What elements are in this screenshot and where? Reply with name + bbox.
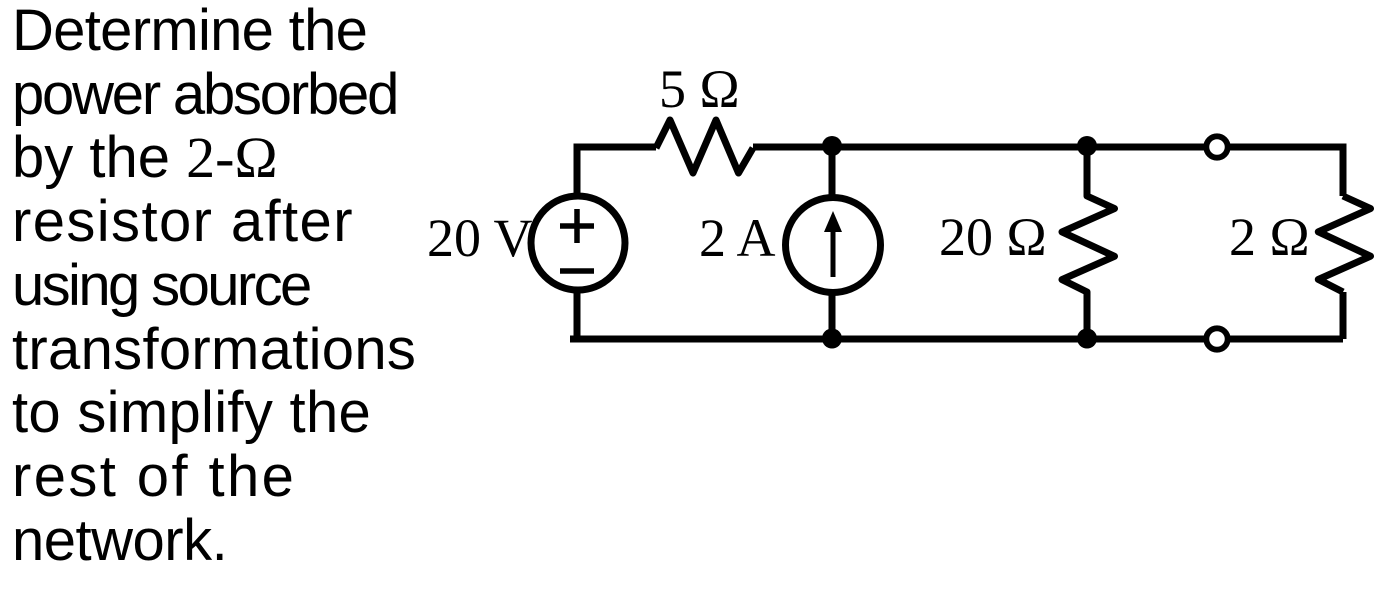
wire: right branch bottom from resistor to corner [1340, 292, 1347, 339]
current source I1 circle [786, 198, 881, 293]
wire: right branch top from open terminal to corner [1228, 147, 1343, 196]
open terminal (bottom) [1206, 328, 1227, 349]
resistor 20 ohm (vertical zigzag with leads) [1062, 147, 1115, 339]
junction node dot (top of 20-ohm resistor) [1077, 136, 1097, 156]
junction node dot (bottom of current source) [822, 329, 842, 349]
svg-text:5 Ω: 5 Ω [659, 59, 740, 119]
problem statement text [12, 0, 452, 572]
wire: voltage source bottom lead [574, 291, 581, 339]
open terminal (top) [1206, 136, 1227, 157]
svg-text:20 Ω: 20 Ω [939, 207, 1047, 267]
wire: top-left corner from voltage source to 5-ohm resistor [577, 147, 656, 196]
resistor 5 ohm (horizontal zigzag) [656, 120, 753, 173]
wire: top rail from resistor to top-right corner [753, 144, 1344, 151]
svg-text:2 Ω: 2 Ω [1229, 207, 1310, 267]
wire: current source top lead [829, 147, 836, 198]
current source arrow [824, 211, 842, 277]
svg-text:20 V: 20 V [427, 208, 533, 268]
minus symbol inside voltage source [560, 268, 594, 274]
plus symbol inside voltage source [560, 209, 594, 243]
wire: current source bottom lead [829, 293, 836, 339]
junction node dot (top of current source) [822, 136, 842, 156]
voltage source V1 circle [531, 196, 625, 290]
resistor 2 ohm (vertical zigzag) [1318, 196, 1370, 292]
junction node dot (bottom of 20-ohm resistor) [1077, 329, 1097, 349]
svg-text:2 A: 2 A [699, 208, 776, 268]
wire: bottom rail [570, 336, 1343, 343]
